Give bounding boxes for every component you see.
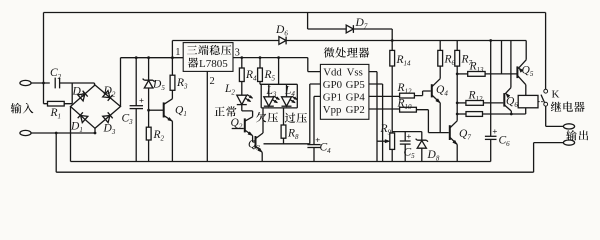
wire: node to R15 [457, 113, 466, 115]
wire: regulator pin3 5V rail [233, 57, 308, 59]
wire: L3 anode stub [268, 84, 270, 97]
wire: R9 wiper arrow line [377, 140, 387, 142]
wire: Q7 emitter to DC- [456, 145, 458, 162]
wire: Q6 emitter riser [510, 41, 512, 88]
wire: 5V to MCU Vdd [308, 58, 321, 72]
resistor R12 (driver) [466, 101, 484, 106]
resistor R8 [281, 125, 286, 138]
wire: L4 anode stub [286, 84, 288, 97]
wire: relay contact to output terminal 1 [546, 106, 564, 126]
wire: top rail to D7 anode [308, 13, 347, 30]
LED L2 [237, 95, 247, 104]
resistor R1 [48, 101, 65, 106]
capacitor C6 bottom plate [485, 138, 497, 140]
wire: D5 bottom leg [148, 88, 150, 110]
wire: Q1 emitter to DC- [171, 121, 173, 161]
wire: D5 top leg [148, 58, 150, 80]
wire: node to R12 (driver) [457, 102, 466, 104]
wire: regulator input to D6 anode [172, 40, 279, 42]
wire: R9 bottom to DC- [391, 149, 393, 161]
label 欠压 (undervoltage) [256, 112, 266, 122]
diode D7 bar [352, 25, 354, 33]
wire: D7 cathode down to R14 [353, 29, 392, 50]
wire: R4 top leg [241, 58, 243, 68]
wire: R5 top leg [259, 58, 261, 68]
wire: R2 bottom to DC- [148, 140, 150, 162]
junction C3 [135, 56, 138, 59]
wire: Q2 emitter to Q3 base [253, 136, 255, 142]
LED L2 light arrows [245, 95, 252, 102]
wire: top supply rail [44, 12, 546, 14]
label 三端稳压 (regulator line1) [187, 45, 197, 54]
diode D2 (bridge upper-right) [103, 91, 110, 98]
Q4 emitter arrow [436, 99, 441, 103]
wire: bridge right vertex up to DC+ node [120, 58, 122, 107]
diode D4 (bridge upper-left) [78, 94, 85, 101]
wire: LED pair riser to 5V rail [278, 58, 280, 85]
resistor R12 [400, 93, 415, 98]
svg-text:+: + [492, 126, 497, 136]
Q1 emitter arrow [168, 117, 173, 121]
Q3 emitter arrow [258, 148, 263, 152]
LED L4 [282, 97, 292, 106]
wire: input 1 to C2 [31, 82, 50, 84]
wire: GP0 riser [310, 84, 321, 144]
resistor R7 [455, 50, 460, 66]
junction riser/5V rail [277, 56, 280, 59]
potentiometer R9 [390, 133, 395, 149]
wire: MCU GP2 row to R10 [369, 108, 400, 110]
wire: R13 to Q5 base [485, 73, 517, 75]
wire: C2 to bridge top vertex [60, 83, 95, 85]
svg-text:+: + [139, 95, 144, 105]
input terminal 1 [20, 80, 31, 85]
wire: C4 bottom to DC- [313, 148, 315, 162]
transistor Q3 base bar [255, 136, 257, 149]
wire: Q3 emitter to DC- [261, 152, 263, 161]
svg-text:GP5: GP5 [346, 79, 365, 91]
junction D6/D7 outputs [391, 39, 394, 42]
diode D7 [346, 25, 353, 33]
zener D8 bar [416, 139, 428, 142]
capacitor C4 top plate [307, 144, 320, 146]
Q6 emitter lead [505, 88, 511, 94]
resistor R6 [438, 50, 443, 66]
resistor R3 [170, 75, 175, 90]
wire: R12 to Q4 base [414, 91, 430, 96]
transistor Q2 base bar [244, 118, 246, 132]
transistor Q5 base bar [516, 66, 518, 78]
capacitor C6 top plate [485, 135, 497, 137]
microprocessor U2 box [320, 64, 369, 119]
wire: R7 top leg [456, 41, 458, 51]
wire: Q3 collector to L3 cathode [262, 108, 264, 133]
wire: bridge left vertex down to DC- line [70, 107, 72, 162]
junction D5 [147, 56, 150, 59]
label 输入 (input) [11, 103, 22, 114]
label 继电器 (relay) [551, 102, 561, 112]
junction R5 [259, 56, 262, 59]
svg-text:Vss: Vss [347, 66, 363, 78]
relay contact bottom [544, 102, 548, 106]
LED L3 [264, 97, 274, 106]
wire: R15 to relay coil bottom [483, 108, 526, 114]
wire: R6 bottom to Q4 collector [439, 66, 441, 79]
Q2 emitter arrow [248, 132, 253, 136]
wire: D8 bottom to DC- [421, 148, 423, 161]
wire: R14 bottom to divider node [391, 66, 393, 133]
resistor R2 [146, 127, 151, 140]
svg-text:Vdd: Vdd [323, 66, 342, 78]
junction Q1 base [147, 109, 150, 112]
wire: R10 to Q7 base [416, 110, 448, 133]
resistor R13 [468, 72, 485, 77]
Q7 emitter lead [450, 137, 457, 144]
wire: divider node line [392, 131, 422, 133]
relay K coil [518, 95, 538, 107]
wire: Q4 emitter down to Q7 base line [439, 103, 441, 133]
wire: C6 bottom to DC- [490, 139, 492, 161]
Q2 collector lead [245, 117, 253, 121]
R9 wiper arrow [385, 140, 390, 143]
svg-text:GP1: GP1 [323, 91, 342, 103]
Q5 emitter arrow (PNP) [519, 68, 523, 73]
wire: R8 bottom [283, 138, 285, 144]
wire: R12 to Q6 base [483, 102, 503, 104]
wire: bottom neutral rail to output terminal 2 [56, 133, 563, 172]
capacitor C3 top plate [130, 105, 143, 107]
resistor R10 [400, 107, 417, 112]
wire: raw supply to C6 [490, 41, 492, 137]
wire: input 2 line [31, 132, 94, 134]
wire: R5 bottom leg [259, 82, 261, 85]
LED pair frame sides/bottom [261, 84, 297, 108]
label 过压 (overvoltage) [285, 113, 295, 123]
zener D5 bar [143, 79, 155, 82]
diode D6 [279, 37, 286, 45]
wire: C5 top leg [404, 132, 406, 141]
relay contact top [544, 89, 548, 93]
wire: right riser from top rail to relay contact [545, 13, 547, 90]
Q6 emitter arrow (PNP) [506, 93, 510, 98]
wire: R3 top leg [171, 58, 173, 75]
wire: D6 cathode to relay driver supply line [286, 40, 526, 42]
voltage regulator U1 box [183, 43, 233, 72]
Q1 collector lead [164, 99, 173, 105]
svg-text:GP4: GP4 [346, 91, 366, 103]
svg-text:Vpp: Vpp [323, 104, 342, 116]
Q5 emitter lead [518, 60, 526, 69]
svg-text:L7805: L7805 [199, 58, 228, 70]
wire: DC negative line [71, 161, 491, 163]
Q4 emitter lead [432, 95, 440, 103]
capacitor C2 plates [55, 78, 59, 89]
junction bridge/input2 [94, 132, 97, 135]
capacitor C4 bottom plate [307, 147, 320, 149]
LED L2 bar [237, 104, 247, 106]
wire: R1 left leg [44, 83, 48, 104]
svg-text:GP2: GP2 [346, 104, 365, 116]
LED L4 bar [282, 105, 292, 107]
capacitor C3 bottom plate [130, 108, 143, 110]
LED L4 light arrows [290, 96, 297, 102]
wire: R3 to Q1 collector [171, 90, 173, 99]
wire: R8/Q3 node to MCU GP0 [264, 143, 310, 145]
capacitor C5 top plate [400, 140, 411, 142]
resistor R4 [239, 68, 244, 82]
wire: R1 right leg up to input line [64, 83, 72, 104]
wire: L2 cathode to Q2 collector [242, 105, 253, 117]
wire: D5 node to R2 [148, 110, 150, 127]
wire: GP1 to C4 [314, 96, 320, 144]
transistor Q6 base bar [503, 93, 505, 107]
wire: Q5 collector to relay coil top [525, 85, 527, 96]
svg-text:K: K [552, 89, 560, 101]
wire: regulator pin2 (gnd) to DC- [206, 71, 208, 161]
svg-text:2: 2 [210, 76, 215, 87]
Q1 emitter lead [164, 115, 173, 121]
label 器L7805 (regulator line2) [188, 58, 198, 68]
wire: MCU GP row to R12 [369, 95, 400, 97]
wire: raw supply drop 2 [501, 41, 503, 74]
Q6 collector lead [504, 105, 511, 114]
wire: R4 to LED L2 [241, 82, 243, 96]
Q7 emitter arrow [453, 140, 458, 144]
label 输出 (output) [566, 130, 576, 140]
wire: LED pair top line [260, 83, 297, 85]
wire: D8 top leg [421, 132, 423, 141]
transistor Q4 base bar [431, 84, 433, 97]
diode D1 (bridge lower-left) [81, 116, 88, 123]
wire: C3 top leg [135, 58, 137, 106]
wire: Q2 base [232, 128, 244, 130]
wire: D6-line riser at regulator pin1 node [171, 41, 173, 58]
wire: R6 top leg [439, 41, 441, 51]
label 正常 (normal) [214, 107, 224, 117]
junction input1/top-rail [42, 82, 45, 85]
wire: Q7 collector node to R13 [457, 73, 468, 75]
relay contact arm [541, 95, 545, 103]
wire: C5 bottom leg [404, 144, 406, 161]
Q7 collector lead [450, 121, 457, 128]
Q4 collector lead [432, 79, 440, 87]
LED L3 light arrows [272, 96, 279, 102]
wire: bridge bottom vertex to input2 line [94, 128, 96, 133]
wire: left riser from top rail to input line 1 [43, 13, 45, 84]
wire: Q5 emitter riser [525, 41, 527, 60]
transistor Q1 base bar [163, 102, 165, 117]
zener diode D8 [417, 141, 426, 149]
resistor R14 [390, 50, 395, 66]
zener diode D5 [144, 80, 153, 88]
Q2 emitter lead [245, 130, 253, 136]
Q3 emitter lead [256, 146, 263, 152]
diode D3 (bridge lower-right) [103, 116, 110, 123]
label 微处理器 (microprocessor) [324, 47, 335, 57]
wire: MCU row1 to R9 wiper riser [369, 72, 377, 162]
bridge rectifier diamond [71, 85, 121, 128]
output terminal 2 [563, 140, 574, 145]
output terminal 1 [563, 124, 574, 129]
wire: MCU Vss row to DC- [369, 84, 383, 162]
resistor R5 [258, 68, 263, 82]
capacitor C5 bottom plate [400, 143, 411, 145]
wire: Q1 base [149, 109, 164, 111]
resistor R15 [466, 112, 483, 117]
transistor Q7 base bar [449, 125, 451, 140]
wire: R7 bottom / Q7 collector riser [456, 66, 458, 121]
Q3 collector lead [256, 133, 264, 139]
wire: L pair cathode to R8 [283, 108, 285, 125]
input terminal 2 [20, 130, 31, 135]
LED L3 bar [264, 105, 274, 107]
wire: DC+ to regulator pin 1 [121, 57, 184, 59]
junction R3/D6 riser [171, 56, 174, 59]
svg-text:+: + [406, 131, 411, 141]
junction input2/bottom rail [55, 132, 58, 135]
svg-text:1: 1 [175, 47, 180, 58]
junction R4 [240, 56, 243, 59]
diode D6 bar [285, 37, 287, 45]
svg-text:GP0: GP0 [323, 79, 342, 91]
Q5 collector lead [517, 75, 525, 84]
wire: C3 bottom leg [135, 109, 137, 162]
relay dashed link [538, 101, 544, 103]
